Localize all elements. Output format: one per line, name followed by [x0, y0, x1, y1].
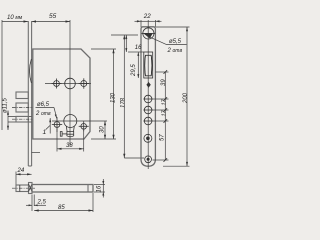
- svg-text:16: 16: [97, 185, 103, 192]
- dimension 130: [91, 49, 117, 139]
- svg-text:17: 17: [162, 98, 168, 105]
- cylinder stem and cam: [60, 126, 74, 137]
- svg-text:178: 178: [121, 97, 127, 108]
- svg-text:30: 30: [100, 126, 106, 133]
- strip bottom hole: [145, 156, 152, 163]
- strip hole 2: [143, 106, 153, 114]
- bottom view latch: [12, 185, 35, 192]
- svg-text:39: 39: [161, 79, 167, 86]
- dimension 22: [135, 13, 162, 27]
- dimension 24: [16, 168, 32, 186]
- strip hole 1: [143, 95, 153, 103]
- svg-text:57: 57: [160, 134, 166, 141]
- bottom view lock body: [32, 185, 93, 193]
- svg-text:17: 17: [162, 109, 168, 116]
- svg-text:85: 85: [58, 205, 65, 211]
- label dia 6.5 2 otv: [35, 102, 57, 119]
- svg-text:29,5: 29,5: [131, 64, 137, 77]
- left cylinder screw hole: [52, 117, 62, 132]
- svg-text:200: 200: [183, 92, 189, 104]
- latch cutout rectangle: [144, 52, 153, 78]
- faceplate front view: [28, 21, 31, 166]
- strip top screw hole: [142, 28, 156, 39]
- dimension 200: [156, 27, 190, 166]
- dimension 10 mm: [2, 15, 28, 23]
- faceplate latch opening arc: [30, 59, 32, 83]
- svg-text:ø6,5: ø6,5: [37, 102, 50, 108]
- svg-text:2 отв: 2 отв: [35, 111, 51, 117]
- svg-text:ø11,5: ø11,5: [3, 97, 9, 113]
- dimension 178: [32, 35, 144, 158]
- strip hole 3: [143, 117, 153, 125]
- dimension 85: [34, 193, 93, 212]
- left small hole: [52, 79, 62, 89]
- dimension 55: [32, 13, 71, 23]
- leader 1: [43, 118, 52, 136]
- auxiliary bar bottom: [12, 116, 33, 122]
- dimension 30: [52, 121, 107, 139]
- svg-text:22: 22: [143, 13, 151, 20]
- svg-text:130: 130: [111, 92, 117, 103]
- dimension 2.5: [26, 195, 47, 212]
- svg-text:ø5,5: ø5,5: [169, 39, 182, 45]
- svg-text:16: 16: [135, 45, 142, 51]
- horizontal centerline through handle holes: [45, 83, 91, 85]
- lock body front view: [33, 49, 90, 139]
- svg-text:2,5: 2,5: [37, 200, 47, 206]
- latch bar top: [16, 92, 28, 99]
- label dia 5.5 2 otv with leader: [143, 33, 186, 54]
- vertical centerline of body: [69, 20, 71, 145]
- bottom view faceplate section: [29, 183, 33, 194]
- right cylinder screw hole: [79, 121, 89, 131]
- dimension 29.5: [131, 52, 139, 78]
- strip vertical centerline: [147, 20, 149, 169]
- svg-text:24: 24: [17, 168, 25, 174]
- svg-text:55: 55: [49, 13, 57, 20]
- dimensions 39 17 17 57 chain: [153, 70, 169, 162]
- cylinder circle: [64, 115, 77, 128]
- deadbolt bar middle: [12, 103, 33, 112]
- dimension 38: [57, 129, 84, 152]
- dimension 16 bottom view: [94, 179, 105, 198]
- svg-text:10 мм: 10 мм: [7, 15, 23, 21]
- countersunk hole: [144, 134, 152, 142]
- anti-friction diamond pin: [146, 82, 150, 88]
- left margin extension line: [1, 20, 3, 130]
- dimension 16 strip: [125, 35, 144, 52]
- latch barrel: [145, 55, 152, 76]
- faceplate strip side view: [141, 27, 155, 166]
- svg-text:2 отв: 2 отв: [167, 48, 183, 54]
- handle follower hole: [65, 78, 76, 89]
- dia 11.5 dimension: [3, 97, 32, 130]
- svg-text:38: 38: [66, 143, 73, 149]
- svg-text:1: 1: [43, 129, 47, 136]
- right small hole: [79, 78, 89, 88]
